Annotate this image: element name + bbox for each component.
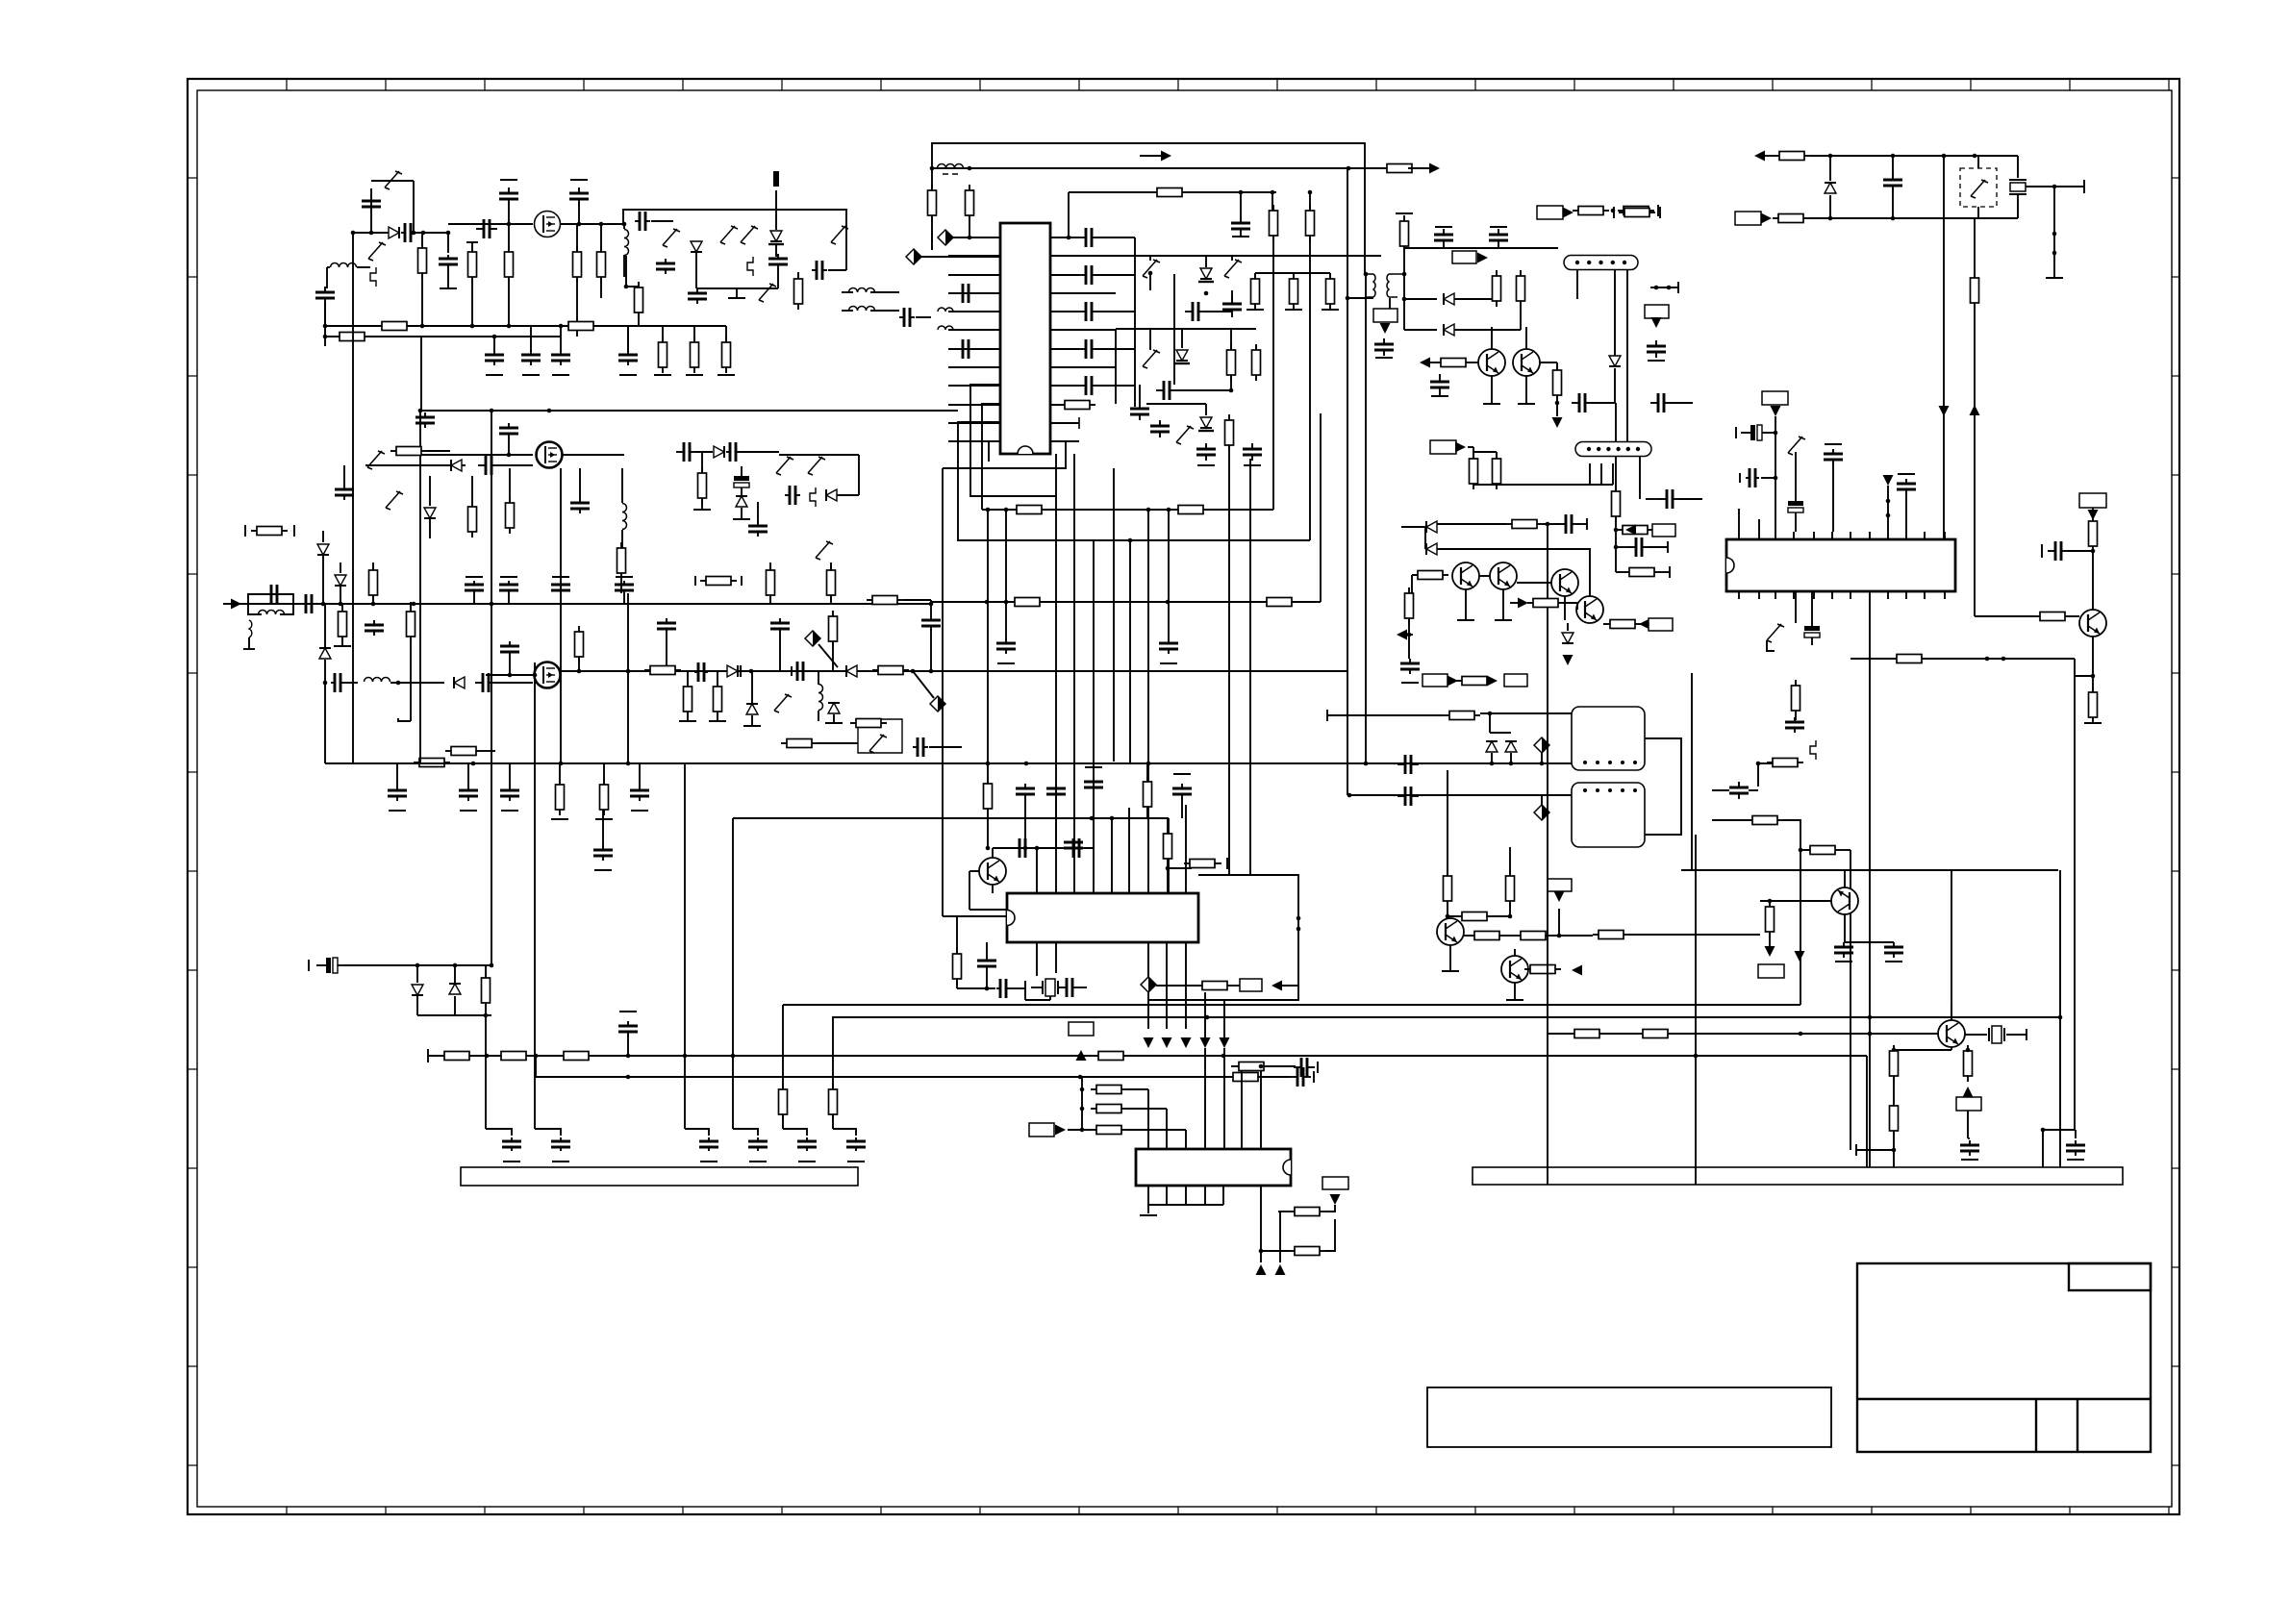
junction J111	[683, 1054, 688, 1059]
diode D c1	[319, 648, 331, 659]
wire	[1491, 753, 1493, 763]
border frame outer	[188, 79, 2179, 1514]
wire U2 bottom pin 2001	[1924, 591, 1926, 599]
open end	[2026, 1029, 2027, 1040]
wire	[1543, 523, 1560, 525]
inductor L u1 left b	[938, 326, 953, 330]
resistor R md1	[1444, 870, 1452, 907]
diode D a1	[389, 227, 399, 238]
wire	[992, 885, 994, 893]
capacitor C a4	[476, 219, 497, 238]
wire	[1829, 195, 1831, 218]
capacitor C mid2	[1650, 393, 1672, 412]
wire	[1309, 192, 1311, 211]
wire	[687, 671, 689, 687]
capacitor C h794	[1397, 755, 1419, 774]
wire	[626, 286, 639, 287]
capacitor C pin1	[1078, 228, 1099, 247]
resistor R u1 top	[1151, 188, 1188, 197]
wire	[1024, 798, 1026, 848]
wire diag c	[818, 644, 838, 667]
junction J28	[1985, 657, 1990, 662]
junction J85	[396, 681, 401, 686]
junction J7	[1067, 236, 1071, 240]
wire	[1968, 1137, 1970, 1139]
capacitor C xt1	[1883, 172, 1902, 193]
diode D xt	[1825, 183, 1836, 193]
capacitor C b1	[415, 412, 435, 428]
wire	[1254, 273, 1256, 279]
wire	[736, 288, 738, 298]
ground	[1961, 1159, 1978, 1161]
capacitor C g712	[699, 1137, 718, 1151]
inductor L u1 left a	[938, 308, 953, 312]
resistor R midq	[1435, 359, 1472, 367]
capacitor C row552	[521, 350, 541, 365]
ground	[728, 297, 745, 299]
junction J69	[420, 324, 425, 329]
junction J76	[547, 409, 552, 413]
wire	[969, 870, 979, 872]
arrow net left mid	[1420, 358, 1444, 368]
wire emitter	[2092, 637, 2094, 694]
wire U1 left pin 2	[948, 255, 1000, 257]
open end	[293, 525, 295, 537]
resistor R md6	[1593, 931, 1629, 939]
wire	[1757, 763, 1759, 787]
junction J5	[1239, 190, 1244, 195]
wire	[1095, 311, 1135, 312]
open end	[619, 1011, 637, 1012]
arrow net a	[1563, 208, 1573, 218]
wire	[1175, 389, 1231, 391]
capacitor C c7	[770, 618, 790, 634]
junction J39	[1614, 545, 1619, 550]
ground	[594, 869, 612, 871]
wire	[471, 242, 473, 252]
wire	[1564, 603, 1577, 610]
wire U1 right pin 9	[1050, 385, 1079, 387]
wire	[1887, 486, 1889, 532]
resistor R u3f	[1196, 982, 1233, 990]
capacitor C u3d	[1046, 784, 1066, 799]
wire	[1181, 329, 1183, 348]
wire	[345, 964, 491, 966]
arrow bc	[1625, 525, 1636, 536]
arrow net o1	[1448, 676, 1458, 687]
junction J66	[622, 222, 627, 227]
wire	[832, 641, 834, 671]
capacitor C m2	[1159, 638, 1178, 654]
wire	[473, 593, 475, 604]
resistor R e4	[600, 779, 609, 815]
wire	[662, 326, 664, 341]
wire	[1712, 789, 1729, 791]
open end	[1085, 766, 1102, 768]
trimmer RV c2	[1788, 437, 1805, 455]
inductor L c1	[365, 678, 390, 683]
junction J35	[1654, 286, 1659, 290]
wire	[969, 909, 1007, 911]
module2 pin dots	[1583, 788, 1637, 792]
wire stair 2	[982, 404, 1000, 510]
arrow down m	[1771, 406, 1781, 416]
resistor R pill2	[1612, 486, 1621, 522]
resistor R bb1	[1227, 1073, 1264, 1082]
wire U3 pin up d	[1168, 818, 1170, 893]
junction J120	[1259, 1064, 1264, 1069]
junction J119	[1080, 1128, 1085, 1133]
capacitor C u3g	[977, 956, 996, 971]
wire h794 right	[1366, 762, 1572, 764]
wire xtal out	[2026, 186, 2084, 187]
wire q base	[1975, 615, 2034, 617]
resistor R xt2	[1773, 214, 1809, 223]
junction J125	[986, 846, 991, 851]
wire	[1564, 596, 1566, 620]
varicap bar2	[1174, 362, 1190, 364]
wire	[1589, 549, 1591, 596]
wire	[1325, 1219, 1335, 1251]
label value xfmr	[1373, 309, 1397, 322]
wire	[956, 979, 958, 988]
label net e	[1652, 524, 1675, 537]
junction J30	[1364, 272, 1369, 277]
connector P c1	[805, 631, 820, 646]
resistor R g2	[829, 1084, 838, 1120]
connector P mod2	[1534, 805, 1549, 820]
diode D b1	[451, 460, 462, 471]
ground	[486, 374, 503, 376]
wire U3 pin up b	[1111, 818, 1113, 893]
wire Qbr collector	[1951, 870, 1952, 1020]
inductor core dashes	[943, 173, 958, 175]
arrow net b	[1477, 253, 1488, 263]
wire U2 bottom pin 1982	[1905, 591, 1907, 599]
wire U2 bottom pin 1886	[1813, 591, 1815, 599]
wire row1b	[1255, 272, 1330, 274]
ground bus bar left	[461, 1167, 858, 1186]
transistor Q mosfet1	[535, 212, 561, 237]
resistor R u1 topb	[1270, 205, 1278, 241]
wire	[1567, 623, 1569, 631]
wire	[1223, 1000, 1225, 1037]
wire	[1589, 463, 1591, 485]
wire	[2017, 195, 2019, 218]
resistor R h3	[558, 1052, 594, 1061]
resistor R u4a	[1289, 1208, 1325, 1216]
wire h853	[1712, 819, 1754, 821]
wire	[957, 987, 995, 989]
open end	[500, 576, 517, 578]
wire	[751, 715, 753, 726]
wire	[1230, 329, 1232, 349]
wire	[1951, 1005, 1952, 1020]
wire U3 pin up a	[1036, 848, 1038, 893]
junction J63	[507, 222, 512, 227]
transistor Q br	[1938, 1020, 1965, 1047]
wire	[467, 763, 469, 787]
open end	[243, 648, 255, 650]
resistor R h685	[1891, 655, 1927, 663]
resistor R br1	[1890, 1045, 1899, 1082]
IC U2 audio processor	[1726, 539, 1955, 591]
wire	[1646, 498, 1661, 500]
wire long pill1	[1626, 270, 1628, 442]
wire v338	[324, 302, 326, 346]
wire	[1147, 942, 1149, 977]
capacitor C b6	[676, 442, 697, 462]
resistor R h1	[439, 1052, 475, 1061]
wire	[1967, 1050, 1969, 1051]
resistor R br5	[1637, 1030, 1674, 1038]
wire U1 right pin 10	[1050, 404, 1079, 406]
capacitor C e413	[388, 786, 407, 801]
wire	[1493, 915, 1510, 917]
wire v653b	[627, 671, 629, 763]
wire	[1447, 770, 1448, 876]
capacitor C u3h	[996, 979, 1010, 998]
wire	[471, 476, 473, 506]
wire	[1551, 935, 1593, 937]
resistor R f4	[1804, 846, 1841, 855]
ground	[1885, 961, 1902, 962]
wire	[1149, 273, 1151, 290]
wire	[1678, 498, 1702, 500]
junction J25	[2052, 251, 2057, 256]
junction J26	[2091, 549, 2096, 554]
junction J14	[1004, 508, 1009, 512]
wire	[1278, 1211, 1289, 1212]
wire v1125	[1081, 1077, 1083, 1130]
wire	[1832, 462, 1834, 532]
wire U1 left pin 7	[948, 348, 1000, 350]
wire v1324	[1272, 236, 1274, 510]
wire v437	[419, 455, 421, 763]
junction J130	[1297, 927, 1301, 932]
capacitor C a2	[401, 223, 415, 242]
capacitor C a12	[812, 261, 827, 280]
wire	[534, 662, 536, 688]
resistor R u1 topc	[1306, 205, 1315, 241]
crystal X1	[2009, 180, 2027, 194]
wire	[638, 312, 640, 326]
wire	[842, 291, 853, 293]
wire U2 top pin 1924	[1850, 532, 1851, 539]
diode D sec1	[1444, 293, 1454, 305]
wire U2 bottom pin 1829	[1758, 591, 1760, 599]
wire	[969, 871, 970, 910]
wire	[1496, 276, 1498, 299]
junction J129	[1297, 916, 1301, 921]
label net f	[1649, 618, 1673, 631]
wire	[1412, 574, 1418, 576]
junction J132	[1868, 1032, 1873, 1037]
wire	[1255, 346, 1257, 349]
open end	[334, 645, 351, 647]
wire U3 pin up e	[1185, 805, 1187, 893]
diode D b4	[736, 496, 747, 507]
open end	[1855, 1144, 1857, 1156]
capacitor C xfmr	[1374, 338, 1394, 356]
tap symbol f	[1810, 740, 1816, 760]
inductor L top filt	[938, 164, 964, 169]
open end	[1313, 1071, 1315, 1083]
wire long v2053	[1974, 303, 1976, 616]
wire	[471, 277, 473, 326]
wire	[625, 256, 627, 287]
wire	[943, 915, 950, 917]
connector CN1 pill	[1564, 256, 1638, 270]
open end	[1490, 226, 1507, 228]
wire	[1769, 932, 1771, 946]
open end	[1173, 773, 1191, 775]
wire	[417, 1014, 491, 1016]
open end	[709, 720, 726, 722]
capacitor C bb1	[1290, 1067, 1311, 1087]
wire v1194	[1147, 510, 1149, 893]
resistor R u3c	[1164, 828, 1172, 864]
open end	[1739, 473, 1741, 483]
capacitor C bc2	[1628, 537, 1649, 557]
wire	[1127, 1129, 1186, 1131]
wire	[1408, 618, 1410, 659]
wire	[1424, 527, 1426, 549]
polarized capacitor C c24	[1788, 491, 1803, 520]
junction J123	[1110, 816, 1115, 821]
capacitor C k1	[1294, 1058, 1315, 1077]
junction J138	[2058, 1015, 2063, 1020]
junction J131	[1868, 1015, 1873, 1020]
wire	[987, 809, 989, 848]
wire U4 pin down 1194	[1147, 1186, 1149, 1205]
capacitor C e5	[593, 845, 613, 861]
junction J110	[626, 1054, 631, 1059]
wire bus851 left	[733, 817, 943, 819]
wire h233	[448, 223, 533, 225]
resistor R d5	[872, 666, 909, 675]
wire	[1447, 901, 1448, 918]
resistor R a5	[597, 246, 606, 283]
wire	[687, 712, 689, 721]
arrow down bc	[1563, 655, 1573, 665]
junction J96	[626, 762, 631, 766]
wire	[390, 682, 444, 684]
wire v1763	[1695, 835, 1697, 1185]
junction J57	[2041, 1128, 2046, 1133]
wire	[508, 224, 510, 252]
wire v438	[420, 337, 422, 411]
ground	[798, 1161, 816, 1162]
ground	[847, 1161, 865, 1162]
wire	[509, 656, 511, 675]
wire diag d	[913, 671, 934, 698]
ground	[1375, 357, 1393, 359]
wire	[870, 310, 899, 312]
junction J126	[1023, 846, 1028, 851]
open end	[679, 720, 696, 722]
diode D bc2	[1426, 543, 1437, 555]
resistor R c2	[407, 606, 415, 642]
label value qc	[2079, 493, 2106, 508]
wire	[508, 277, 510, 326]
capacitor C b4	[570, 498, 590, 513]
wire	[627, 1035, 629, 1056]
wire	[987, 763, 989, 784]
wire	[930, 629, 932, 671]
junction J83	[1004, 600, 1009, 605]
wire U2 top pin 1886	[1813, 532, 1815, 539]
wire	[324, 302, 326, 326]
junction J20	[1973, 154, 1977, 159]
resistor R br3	[1964, 1045, 1973, 1082]
junction J78	[339, 602, 343, 607]
wire	[1468, 446, 1473, 448]
wire bus339	[325, 325, 635, 327]
resistor R mid e	[1553, 364, 1562, 401]
wire	[621, 530, 623, 548]
open end	[694, 576, 696, 586]
wire	[1600, 463, 1602, 485]
wire tank bottom	[696, 287, 778, 289]
diode D in1	[317, 544, 329, 555]
wire v980	[942, 468, 944, 916]
junction J52	[1768, 899, 1773, 904]
capacitor C pin9	[1078, 376, 1099, 395]
wire	[372, 562, 374, 569]
junction J68	[323, 324, 328, 329]
module1 pin dots	[1583, 761, 1637, 764]
polarized capacitor C f1	[1804, 616, 1820, 645]
resistor R e1b	[1405, 587, 1414, 624]
resistor R e1	[445, 747, 482, 756]
module relay 2	[1572, 783, 1645, 847]
wire	[1241, 1066, 1243, 1149]
flow arrow d1	[1162, 1037, 1172, 1048]
wire	[931, 231, 933, 250]
wire	[1325, 1205, 1335, 1212]
wire U3 pin up c	[1128, 808, 1130, 893]
resistor R u4b	[1289, 1247, 1325, 1256]
open end	[1586, 518, 1588, 530]
wire	[602, 811, 604, 847]
wire	[415, 232, 448, 234]
wire trim loop	[371, 180, 414, 182]
wire	[1149, 256, 1151, 261]
resistor R topB	[966, 185, 974, 221]
wire	[322, 531, 324, 542]
wire	[627, 326, 629, 352]
ground	[503, 1161, 520, 1162]
ground	[1140, 1214, 1157, 1216]
wire U1 left pin 10	[948, 404, 1000, 406]
label net o	[1422, 674, 1448, 687]
junction J93	[911, 669, 916, 674]
inductor L a4	[849, 307, 875, 312]
wire	[1498, 243, 1499, 248]
wire	[1841, 849, 1850, 851]
junction J102	[490, 963, 494, 968]
wire	[1079, 366, 1116, 368]
junction J2	[968, 166, 972, 171]
input LC loop	[248, 594, 293, 614]
wire	[509, 468, 511, 502]
arrow net k	[1055, 1125, 1066, 1136]
ground	[1160, 662, 1177, 664]
wire	[842, 310, 853, 312]
capacitor C e530	[500, 786, 519, 801]
wire v1300	[1249, 459, 1251, 875]
